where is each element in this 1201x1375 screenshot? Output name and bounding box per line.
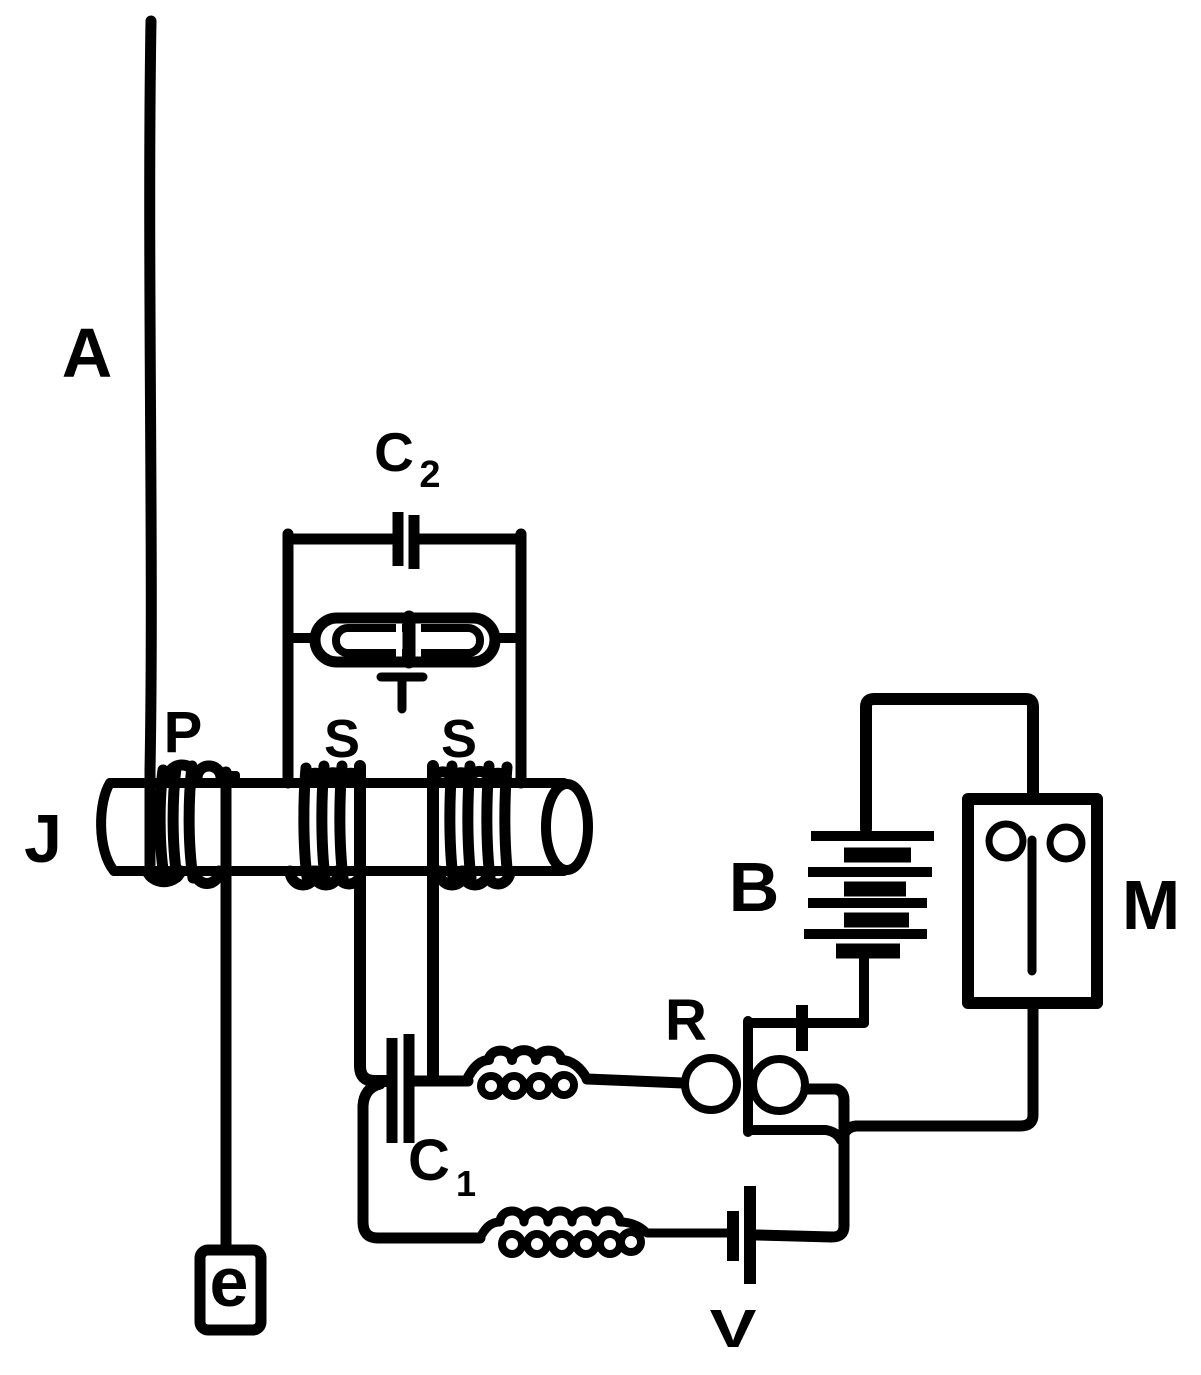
svg-text:J: J — [24, 801, 62, 877]
label T — [381, 677, 423, 709]
wire battery B bottom lead — [859, 953, 869, 1023]
wire battery B top lead — [866, 699, 1033, 829]
svg-text:C: C — [374, 421, 414, 483]
inductor bottom coil — [480, 1211, 727, 1254]
wire C1 to coil — [413, 1076, 468, 1087]
svg-text:2: 2 — [419, 454, 440, 496]
capacitor C1 — [392, 1034, 409, 1143]
svg-text:P: P — [164, 700, 203, 765]
svg-text:M: M — [1122, 866, 1180, 944]
wire R right circle to V node — [757, 1089, 844, 1237]
svg-text:V: V — [710, 1299, 757, 1359]
secondary winding S right — [433, 766, 510, 885]
coil former J tube — [101, 783, 588, 871]
key contact tick — [796, 1005, 808, 1051]
antenna A wire — [150, 21, 152, 872]
svg-text:1: 1 — [456, 1163, 476, 1204]
wire box top right segment — [419, 534, 518, 545]
label C1 — [408, 1128, 476, 1204]
wire S2 down to C1 node — [427, 766, 439, 1078]
detector T — [288, 617, 521, 665]
capacitor C2 — [398, 512, 414, 569]
svg-text:e: e — [210, 1243, 249, 1321]
wire box left edge — [283, 534, 294, 783]
wire vertical between R circles — [743, 1021, 753, 1132]
svg-text:A: A — [62, 314, 113, 392]
battery V — [727, 1211, 739, 1261]
svg-text:R: R — [665, 988, 707, 1053]
wire R box top — [748, 1018, 864, 1028]
wire coil to R — [587, 1079, 683, 1083]
primary winding P — [147, 765, 221, 884]
rheostat R circles — [685, 1058, 737, 1110]
inductor top coil — [466, 1050, 587, 1096]
wire P winding down to earth — [221, 772, 232, 1245]
wire S1 down to C1 left plate — [360, 766, 389, 1081]
svg-text:S: S — [324, 709, 360, 769]
wire R box bottom — [748, 1130, 841, 1140]
wire M bottom to V node — [844, 1009, 1033, 1134]
svg-text:C: C — [408, 1128, 450, 1193]
earth plate e box — [200, 1250, 261, 1330]
wire C1 bottom loop — [363, 1084, 480, 1238]
secondary winding S left — [290, 766, 361, 885]
galvanometer M — [968, 799, 1097, 1003]
battery B — [804, 836, 934, 951]
P winding top end blob — [221, 771, 240, 781]
svg-text:S: S — [441, 709, 477, 769]
wire box top left segment — [288, 534, 393, 545]
svg-text:B: B — [729, 848, 780, 926]
wire box right edge — [516, 534, 527, 783]
label C2 — [374, 421, 440, 496]
